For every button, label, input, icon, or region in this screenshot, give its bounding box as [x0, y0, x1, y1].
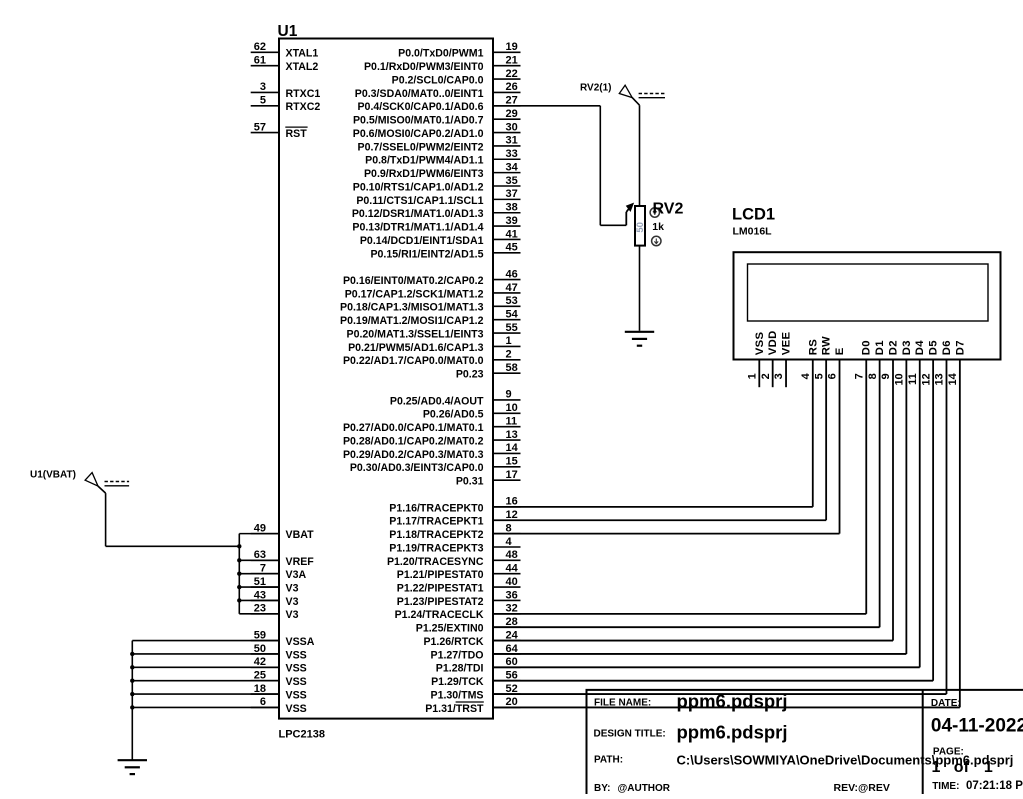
svg-text:46: 46 [506, 268, 518, 280]
svg-text:P1.18/TRACEPKT2: P1.18/TRACEPKT2 [389, 529, 483, 541]
svg-text:31: 31 [506, 135, 518, 147]
svg-text:P0.17/CAP1.2/SCK1/MAT1.2: P0.17/CAP1.2/SCK1/MAT1.2 [345, 288, 484, 300]
svg-text:E: E [834, 347, 846, 355]
svg-text:U1(VBAT): U1(VBAT) [30, 470, 76, 481]
svg-text:VBAT: VBAT [286, 529, 315, 541]
svg-text:8: 8 [867, 373, 879, 379]
svg-text:60: 60 [506, 656, 518, 668]
svg-text:P1.20/TRACESYNC: P1.20/TRACESYNC [387, 556, 484, 568]
svg-text:LPC2138: LPC2138 [279, 729, 325, 741]
svg-text:6: 6 [260, 696, 266, 708]
svg-text:P0.25/AD0.4/AOUT: P0.25/AD0.4/AOUT [390, 395, 484, 407]
svg-text:VREF: VREF [286, 556, 315, 568]
svg-text:D5: D5 [928, 340, 940, 355]
svg-text:VSS: VSS [286, 649, 307, 661]
svg-text:53: 53 [506, 295, 518, 307]
svg-text:VSS: VSS [754, 332, 766, 356]
svg-text:D3: D3 [901, 340, 913, 355]
svg-text:P0.9/RxD1/PWM6/EINT3: P0.9/RxD1/PWM6/EINT3 [364, 168, 484, 180]
svg-text:P1.24/TRACECLK: P1.24/TRACECLK [395, 609, 484, 621]
svg-text:10: 10 [894, 373, 906, 385]
svg-text:VSS: VSS [286, 663, 307, 675]
svg-text:P1.16/TRACEPKT0: P1.16/TRACEPKT0 [389, 502, 483, 514]
svg-text:21: 21 [506, 54, 518, 66]
svg-text:PATH:: PATH: [594, 755, 623, 766]
svg-text:ppm6.pdsprj: ppm6.pdsprj [677, 691, 788, 712]
svg-text:6: 6 [827, 373, 839, 379]
svg-text:P1.25/EXTIN0: P1.25/EXTIN0 [416, 623, 484, 635]
svg-text:DATE:: DATE: [931, 698, 961, 709]
svg-text:D2: D2 [888, 340, 900, 355]
svg-text:P1.30/TMS: P1.30/TMS [431, 689, 484, 701]
svg-text:D4: D4 [914, 340, 926, 355]
svg-text:42: 42 [254, 656, 266, 668]
svg-text:19: 19 [506, 41, 518, 53]
svg-text:55: 55 [506, 322, 518, 334]
svg-text:11: 11 [907, 373, 919, 385]
svg-text:P0.7/SSEL0/PWM2/EINT2: P0.7/SSEL0/PWM2/EINT2 [358, 141, 484, 153]
svg-text:XTAL2: XTAL2 [286, 61, 319, 73]
svg-text:12: 12 [506, 509, 518, 521]
svg-text:58: 58 [506, 362, 518, 374]
svg-text:V3: V3 [286, 583, 299, 595]
svg-text:37: 37 [506, 188, 518, 200]
svg-text:P0.2/SCL0/CAP0.0: P0.2/SCL0/CAP0.0 [392, 74, 484, 86]
svg-text:VSS: VSS [286, 689, 307, 701]
svg-text:34: 34 [506, 161, 519, 173]
svg-text:LM016L: LM016L [733, 226, 773, 238]
svg-text:12: 12 [920, 373, 932, 385]
svg-text:33: 33 [506, 148, 518, 160]
svg-text:RV2: RV2 [653, 201, 684, 218]
svg-text:P1.19/TRACEPKT3: P1.19/TRACEPKT3 [389, 542, 483, 554]
svg-text:50: 50 [635, 222, 646, 233]
svg-text:P1.27/TDO: P1.27/TDO [431, 649, 484, 661]
svg-text:3: 3 [773, 373, 785, 379]
svg-text:13: 13 [506, 429, 518, 441]
svg-text:REV:@REV: REV:@REV [834, 782, 890, 794]
svg-text:36: 36 [506, 589, 518, 601]
svg-text:14: 14 [506, 442, 519, 454]
svg-text:P0.6/MOSI0/CAP0.2/AD1.0: P0.6/MOSI0/CAP0.2/AD1.0 [353, 128, 484, 140]
svg-text:56: 56 [506, 669, 518, 681]
svg-text:1: 1 [506, 335, 512, 347]
svg-text:VDD: VDD [767, 330, 779, 355]
svg-text:13: 13 [934, 373, 946, 385]
svg-text:VEE: VEE [781, 332, 793, 356]
svg-text:P0.5/MISO0/MAT0.1/AD0.7: P0.5/MISO0/MAT0.1/AD0.7 [353, 115, 484, 127]
svg-text:11: 11 [506, 415, 518, 427]
svg-text:1: 1 [984, 759, 993, 776]
svg-text:P0.21/PWM5/AD1.6/CAP1.3: P0.21/PWM5/AD1.6/CAP1.3 [348, 342, 484, 354]
svg-text:64: 64 [506, 643, 519, 655]
svg-text:ppm6.pdsprj: ppm6.pdsprj [677, 722, 788, 743]
svg-text:4: 4 [506, 536, 513, 548]
svg-text:9: 9 [880, 373, 892, 379]
svg-text:VSSA: VSSA [286, 636, 315, 648]
svg-text:52: 52 [506, 683, 518, 695]
svg-text:PAGE:: PAGE: [933, 747, 964, 758]
svg-text:10: 10 [506, 402, 518, 414]
svg-text:P0.14/DCD1/EINT1/SDA1: P0.14/DCD1/EINT1/SDA1 [360, 235, 484, 247]
svg-text:P1.31/TRST: P1.31/TRST [425, 703, 484, 715]
svg-text:VSS: VSS [286, 703, 307, 715]
svg-text:P0.19/MAT1.2/MOSI1/CAP1.2: P0.19/MAT1.2/MOSI1/CAP1.2 [340, 315, 484, 327]
svg-text:57: 57 [254, 121, 266, 133]
svg-text:47: 47 [506, 282, 518, 294]
svg-text:44: 44 [506, 563, 519, 575]
svg-text:P0.8/TxD1/PWM4/AD1.1: P0.8/TxD1/PWM4/AD1.1 [365, 155, 483, 167]
svg-text:7: 7 [260, 563, 266, 575]
svg-text:14: 14 [947, 372, 959, 385]
svg-text:32: 32 [506, 603, 518, 615]
svg-text:V3: V3 [286, 609, 299, 621]
svg-text:P0.18/CAP1.3/MISO1/MAT1.3: P0.18/CAP1.3/MISO1/MAT1.3 [340, 302, 484, 314]
svg-text:TIME:: TIME: [932, 781, 959, 792]
svg-text:D0: D0 [861, 340, 873, 355]
svg-text:41: 41 [506, 228, 518, 240]
svg-text:XTAL1: XTAL1 [286, 48, 319, 60]
svg-text:P0.16/EINT0/MAT0.2/CAP0.2: P0.16/EINT0/MAT0.2/CAP0.2 [343, 275, 484, 287]
svg-text:20: 20 [506, 696, 518, 708]
svg-text:P0.1/RxD0/PWM3/EINT0: P0.1/RxD0/PWM3/EINT0 [364, 61, 484, 73]
svg-text:P0.20/MAT1.3/SSEL1/EINT3: P0.20/MAT1.3/SSEL1/EINT3 [347, 328, 484, 340]
svg-text:28: 28 [506, 616, 518, 628]
svg-text:P1.21/PIPESTAT0: P1.21/PIPESTAT0 [397, 569, 484, 581]
svg-text:RTXC1: RTXC1 [286, 88, 321, 100]
svg-text:P0.28/AD0.1/CAP0.2/MAT0.2: P0.28/AD0.1/CAP0.2/MAT0.2 [343, 435, 484, 447]
svg-text:@AUTHOR: @AUTHOR [618, 783, 671, 794]
svg-text:4: 4 [800, 372, 812, 379]
svg-text:P0.30/AD0.3/EINT3/CAP0.0: P0.30/AD0.3/EINT3/CAP0.0 [350, 462, 484, 474]
svg-text:43: 43 [254, 589, 266, 601]
svg-text:35: 35 [506, 175, 518, 187]
svg-text:23: 23 [254, 603, 266, 615]
svg-text:FILE NAME:: FILE NAME: [594, 698, 651, 709]
svg-text:RTXC2: RTXC2 [286, 101, 321, 113]
svg-text:27: 27 [506, 95, 518, 107]
svg-text:P1.17/TRACEPKT1: P1.17/TRACEPKT1 [389, 516, 483, 528]
svg-text:P0.23: P0.23 [456, 369, 484, 381]
svg-text:P0.4/SCK0/CAP0.1/AD0.6: P0.4/SCK0/CAP0.1/AD0.6 [357, 101, 483, 113]
svg-text:1k: 1k [652, 221, 664, 233]
svg-text:07:21:18 P: 07:21:18 P [966, 780, 1023, 792]
svg-text:P0.13/DTR1/MAT1.1/AD1.4: P0.13/DTR1/MAT1.1/AD1.4 [352, 222, 483, 234]
svg-text:62: 62 [254, 41, 266, 53]
svg-text:RS: RS [807, 339, 819, 355]
svg-text:P0.22/AD1.7/CAP0.0/MAT0.0: P0.22/AD1.7/CAP0.0/MAT0.0 [343, 355, 484, 367]
svg-text:V3: V3 [286, 596, 299, 608]
svg-text:7: 7 [853, 373, 865, 379]
svg-text:15: 15 [506, 456, 518, 468]
svg-text:5: 5 [260, 95, 266, 107]
svg-text:P1.26/RTCK: P1.26/RTCK [423, 636, 483, 648]
svg-text:D1: D1 [874, 340, 886, 355]
svg-text:P1.22/PIPESTAT1: P1.22/PIPESTAT1 [397, 583, 484, 595]
svg-text:P1.29/TCK: P1.29/TCK [431, 676, 484, 688]
svg-text:LCD1: LCD1 [732, 206, 775, 224]
svg-text:5: 5 [813, 373, 825, 379]
svg-text:of: of [954, 759, 970, 776]
svg-text:04-11-2022: 04-11-2022 [931, 716, 1023, 737]
svg-text:D7: D7 [954, 340, 966, 355]
svg-text:P0.10/RTS1/CAP1.0/AD1.2: P0.10/RTS1/CAP1.0/AD1.2 [353, 181, 484, 193]
svg-text:9: 9 [506, 389, 512, 401]
svg-text:17: 17 [506, 469, 518, 481]
svg-text:P1.23/PIPESTAT2: P1.23/PIPESTAT2 [397, 596, 484, 608]
svg-text:RW: RW [821, 336, 833, 355]
svg-text:59: 59 [254, 629, 266, 641]
svg-text:29: 29 [506, 108, 518, 120]
svg-text:16: 16 [506, 496, 518, 508]
svg-text:39: 39 [506, 215, 518, 227]
svg-text:1: 1 [932, 759, 941, 776]
svg-text:P0.29/AD0.2/CAP0.3/MAT0.3: P0.29/AD0.2/CAP0.3/MAT0.3 [343, 449, 484, 461]
svg-text:54: 54 [506, 309, 519, 321]
svg-text:P1.28/TDI: P1.28/TDI [436, 663, 484, 675]
svg-text:24: 24 [506, 629, 519, 641]
svg-text:30: 30 [506, 121, 518, 133]
svg-text:50: 50 [254, 643, 266, 655]
svg-text:P0.11/CTS1/CAP1.1/SCL1: P0.11/CTS1/CAP1.1/SCL1 [356, 195, 483, 207]
svg-text:VSS: VSS [286, 676, 307, 688]
svg-text:1: 1 [747, 373, 759, 379]
svg-text:P0.31: P0.31 [456, 476, 484, 488]
svg-text:P0.3/SDA0/MAT0..0/EINT1: P0.3/SDA0/MAT0..0/EINT1 [355, 88, 484, 100]
svg-text:18: 18 [254, 683, 266, 695]
svg-text:D6: D6 [941, 340, 953, 355]
svg-text:51: 51 [254, 576, 266, 588]
svg-text:P0.26/AD0.5: P0.26/AD0.5 [423, 409, 484, 421]
svg-text:BY:: BY: [594, 783, 610, 794]
svg-text:P0.27/AD0.0/CAP0.1/MAT0.1: P0.27/AD0.0/CAP0.1/MAT0.1 [343, 422, 484, 434]
svg-text:49: 49 [254, 522, 266, 534]
svg-text:40: 40 [506, 576, 518, 588]
svg-text:2: 2 [760, 373, 772, 379]
svg-text:63: 63 [254, 549, 266, 561]
svg-text:45: 45 [506, 242, 518, 254]
svg-text:P0.12/DSR1/MAT1.0/AD1.3: P0.12/DSR1/MAT1.0/AD1.3 [352, 208, 484, 220]
svg-text:3: 3 [260, 81, 266, 93]
svg-text:2: 2 [506, 349, 512, 361]
svg-text:61: 61 [254, 54, 266, 66]
svg-text:38: 38 [506, 202, 518, 214]
svg-text:P0.15/RI1/EINT2/AD1.5: P0.15/RI1/EINT2/AD1.5 [370, 248, 483, 260]
svg-text:48: 48 [506, 549, 518, 561]
svg-text:8: 8 [506, 522, 512, 534]
svg-text:25: 25 [254, 669, 266, 681]
svg-text:V3A: V3A [286, 569, 307, 581]
svg-text:DESIGN TITLE:: DESIGN TITLE: [594, 729, 666, 740]
svg-text:26: 26 [506, 81, 518, 93]
svg-text:RV2(1): RV2(1) [580, 83, 612, 94]
svg-text:U1: U1 [278, 23, 298, 40]
svg-text:P0.0/TxD0/PWM1: P0.0/TxD0/PWM1 [398, 48, 483, 60]
svg-text:RST: RST [286, 128, 308, 140]
svg-text:22: 22 [506, 68, 518, 80]
